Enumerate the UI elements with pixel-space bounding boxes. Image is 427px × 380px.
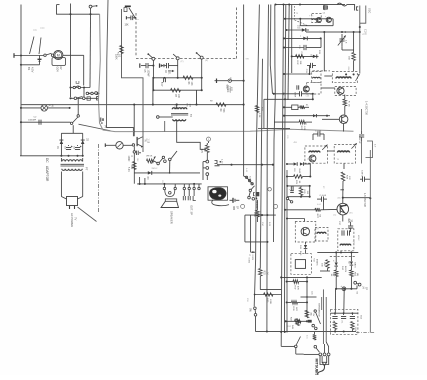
svg-text:1-15: 1-15: [147, 139, 149, 144]
antenna lead: [323, 32, 325, 71]
earphone: [209, 188, 226, 200]
marker: [207, 137, 211, 141]
wire: [122, 9, 144, 152]
svg-text:VR 5K: VR 5K: [146, 156, 153, 158]
node: [133, 104, 135, 106]
svg-text:GERMANIUM: GERMANIUM: [318, 303, 321, 317]
arrow: [351, 143, 356, 148]
transformer T2 secondary: [173, 119, 186, 121]
wire: [324, 75, 332, 77]
wire: [306, 277, 308, 316]
dashed box: [312, 14, 322, 23]
wire: [208, 141, 210, 143]
connector (B): [100, 118, 102, 122]
svg-text:EP: EP: [365, 287, 367, 291]
wire: [176, 105, 178, 110]
wire: [232, 80, 244, 82]
capacitor: [127, 17, 130, 19]
node: [284, 98, 286, 100]
node: [20, 64, 22, 66]
dark box: [256, 192, 259, 196]
mic connector: [228, 79, 231, 82]
switch S4 contacts: [74, 97, 77, 100]
svg-text:M: M: [57, 54, 60, 58]
jack bracket: [97, 97, 99, 100]
wire: [287, 163, 294, 165]
svg-text:(C): (C): [333, 215, 336, 217]
svg-text:150K: 150K: [115, 54, 118, 60]
wire: [203, 167, 206, 169]
dark component: [308, 320, 312, 323]
wire: [361, 109, 363, 131]
wire: [287, 196, 309, 198]
wire: [171, 151, 177, 159]
dashed box C52: [330, 309, 358, 334]
wire T6 feed: [287, 218, 305, 220]
resistor R10: [133, 162, 137, 170]
wire: [89, 14, 92, 87]
wire: [274, 93, 299, 95]
svg-text:C23: C23: [306, 96, 309, 98]
capacitor C52: [350, 316, 355, 318]
wire: [299, 19, 301, 26]
wire: [60, 158, 62, 162]
transistor TR4 (2SC730): [337, 203, 349, 215]
resistor R6: [183, 76, 193, 80]
wire: [133, 105, 135, 137]
node: [139, 183, 141, 185]
wire: [259, 276, 261, 290]
svg-text:1K: 1K: [265, 272, 267, 275]
speaker voice coil: [163, 187, 165, 189]
wire: [70, 4, 72, 98]
wire: [53, 54, 55, 56]
wire: [152, 60, 154, 90]
dashed box: [312, 71, 321, 82]
node: [285, 29, 287, 31]
wire: [14, 55, 44, 57]
small box: [87, 97, 90, 100]
svg-text:SW: SW: [246, 59, 249, 61]
dashed box T7: [315, 228, 328, 242]
svg-text:1-4 2SC730: 1-4 2SC730: [365, 101, 369, 115]
resistor R30: [326, 260, 330, 269]
svg-text:C2-3: C2-3: [249, 176, 251, 182]
node: [152, 77, 154, 79]
wire: [244, 215, 246, 242]
earphone cord: [212, 200, 229, 206]
head symbol: [159, 63, 161, 67]
vert: [359, 6, 361, 74]
resistor R28: [341, 172, 345, 181]
wire: [295, 348, 297, 354]
contact pair: [248, 196, 251, 199]
contact: [164, 160, 167, 163]
wire: [77, 99, 79, 115]
bus wire: [274, 5, 276, 243]
diode D2: [81, 140, 85, 144]
wire: [287, 281, 293, 283]
wire: [142, 151, 144, 153]
svg-text:OFF: OFF: [40, 27, 45, 30]
wire: [153, 77, 201, 79]
wire: [217, 164, 273, 166]
svg-text:15K: 15K: [299, 61, 301, 65]
ext sp jack: [183, 187, 185, 189]
wire: [286, 322, 288, 333]
node: [335, 288, 337, 290]
capacitor C38: [362, 177, 364, 182]
wire: [281, 345, 294, 347]
wire: [285, 18, 333, 20]
node: [230, 164, 232, 166]
node: [286, 281, 288, 283]
resistor R42: [305, 310, 309, 318]
wire: [327, 268, 329, 271]
dashed box T3: [335, 86, 356, 95]
wire: [309, 163, 311, 176]
capacitor C4: [75, 147, 80, 149]
wire: [334, 330, 336, 332]
pilot lamp PL: [41, 105, 47, 111]
wire: [21, 64, 40, 66]
corner wire: [264, 99, 290, 128]
switch SW1-3: [200, 56, 203, 59]
diode D3: [148, 171, 152, 175]
wire: [334, 289, 336, 313]
wire: [256, 200, 258, 210]
capacitor in T8: [341, 230, 343, 235]
resistor R53: [333, 322, 337, 330]
svg-text:(B): (B): [356, 273, 358, 276]
resistor R31: [340, 189, 344, 191]
phone plug: [320, 356, 329, 365]
wire: [202, 162, 204, 180]
bus wire: [270, 5, 272, 94]
wire: [61, 132, 82, 134]
svg-text:R?: R?: [322, 186, 324, 188]
node: [89, 13, 91, 15]
jack bracket: [215, 161, 218, 164]
wire: [353, 32, 355, 53]
resistor R32: [296, 55, 305, 59]
diode D6: [303, 36, 307, 40]
wire: [71, 87, 91, 89]
wire: [287, 29, 310, 31]
diode D8: [313, 54, 317, 58]
node: [283, 46, 285, 48]
AC plug: [67, 197, 78, 206]
antenna tap hatch: [323, 5, 325, 10]
vert: [360, 6, 366, 24]
wire: [245, 241, 268, 243]
wire: [342, 215, 344, 222]
cord: [325, 297, 327, 342]
capacitor C33: [310, 63, 312, 68]
node: [342, 197, 344, 199]
capacitor C7: [163, 77, 165, 82]
remote jack row: [86, 92, 88, 94]
dashed box T5: [334, 145, 355, 164]
transistor TR7: [337, 87, 344, 94]
wire: [133, 146, 135, 151]
wire: [342, 181, 344, 198]
switch S5 lever: [73, 117, 78, 123]
bus wire: [260, 59, 262, 269]
switch S9: [254, 307, 257, 310]
bus wire: [281, 5, 283, 347]
capacitor C6: [166, 63, 168, 68]
svg-text:R12: R12: [203, 148, 205, 153]
wire: [356, 286, 358, 289]
terminal: [125, 16, 127, 19]
wire: [317, 251, 358, 253]
wire: [57, 5, 100, 15]
node: [284, 209, 286, 211]
switch: [249, 189, 251, 191]
resistor R41: [295, 320, 302, 324]
svg-text:TR: TR: [144, 139, 146, 142]
wire: [83, 88, 85, 99]
switch S7: [286, 197, 288, 199]
terminal: [216, 79, 218, 84]
svg-text:x: x: [138, 19, 139, 21]
svg-text:0.005: 0.005: [248, 258, 250, 264]
bracket: [366, 141, 373, 158]
wire: [320, 38, 322, 47]
diode D11: [304, 245, 308, 249]
arrow: [168, 70, 172, 72]
node: [266, 241, 268, 243]
svg-text:C 2-5: C 2-5: [363, 29, 365, 35]
wire: [344, 95, 346, 100]
dashed box T4: [305, 146, 328, 163]
resistor R27: [315, 208, 321, 212]
coil T8: [340, 244, 351, 245]
resistor R23: [343, 99, 347, 106]
capacitor C22: [299, 91, 301, 96]
wire: [133, 153, 135, 184]
svg-text:455KC: 455KC: [357, 235, 359, 241]
svg-text:C38 5P: C38 5P: [361, 170, 363, 178]
svg-text:ADAPTOR: ADAPTOR: [45, 166, 49, 182]
wire: [284, 47, 304, 49]
bus wire: [243, 5, 245, 177]
wire: [123, 144, 132, 146]
long wire: [21, 104, 244, 106]
resistor R7: [171, 88, 181, 92]
wire: [244, 175, 245, 178]
svg-text:IN60S: IN60S: [344, 266, 346, 273]
switch S6: [157, 162, 160, 165]
svg-text:602: 602: [229, 77, 231, 80]
wire: [335, 252, 337, 262]
svg-text:x: x: [300, 36, 301, 38]
node: [291, 55, 293, 57]
wire: [152, 77, 154, 79]
bus wire: [254, 5, 259, 307]
wire: [335, 267, 337, 270]
contact: [319, 353, 322, 356]
wire: [72, 125, 74, 133]
svg-text:AC POWER: AC POWER: [70, 213, 74, 227]
wire: [20, 155, 83, 157]
transistor TR2 (2SC730): [339, 115, 348, 124]
motor governor box: [52, 58, 66, 66]
wire: [139, 177, 141, 184]
wire: [285, 320, 307, 322]
contact: [77, 115, 79, 117]
resistor R39: [292, 301, 298, 305]
coil T4: [309, 151, 320, 152]
wire: [57, 4, 60, 6]
resistor R21: [255, 106, 259, 113]
diode D10: [300, 162, 304, 166]
wire: [309, 66, 311, 75]
dashed box T10: [291, 254, 312, 275]
coil: [313, 19, 321, 20]
wire: [321, 87, 335, 89]
dashed diagonal: [294, 6, 296, 20]
bus wire: [291, 5, 293, 74]
capacitor C36: [348, 225, 353, 227]
resistor R22: [299, 120, 305, 124]
wire: [286, 196, 288, 199]
dash-dot top: [313, 70, 331, 72]
svg-text:MIN: MIN: [232, 206, 234, 211]
wire: [322, 289, 324, 344]
wire: [255, 294, 282, 296]
wire: [305, 242, 307, 245]
wire: [281, 276, 322, 278]
node: [261, 214, 263, 216]
wire: [274, 121, 299, 123]
marker: [268, 188, 271, 191]
wire: [284, 37, 321, 39]
switch lever: [296, 337, 300, 346]
svg-text:C51: C51: [341, 320, 343, 323]
svg-text:OSC: OSC: [347, 67, 349, 72]
svg-text:C31 5P: C31 5P: [358, 136, 360, 144]
wire: [13, 53, 15, 58]
diode D12: [334, 263, 338, 267]
svg-text:4.5V: 4.5V: [31, 67, 35, 73]
capacitor C51: [341, 316, 346, 318]
contact: [314, 345, 317, 348]
capacitor C34: [291, 185, 293, 188]
transistor TR6: [316, 17, 321, 22]
node: [286, 185, 288, 187]
wire: [350, 266, 352, 270]
svg-text:GOV: GOV: [56, 67, 59, 73]
switch lever: [129, 8, 135, 18]
svg-text:C26: C26: [286, 135, 288, 138]
wire: [71, 97, 100, 99]
capacitor C35: [321, 197, 323, 202]
wire: [298, 106, 300, 108]
wire: [323, 201, 325, 210]
node: [309, 196, 311, 198]
diode D1: [59, 140, 63, 144]
resistor R33: [259, 269, 263, 277]
wire: [196, 90, 198, 104]
wire diagonal: [78, 207, 97, 222]
node: [280, 276, 282, 278]
wire: [260, 289, 281, 291]
wire: [206, 153, 208, 161]
svg-text:(R): (R): [205, 60, 208, 62]
contact EP: [354, 281, 357, 284]
transformer T2 core: [171, 113, 188, 115]
wire: [324, 344, 326, 353]
node: [286, 301, 288, 303]
switch SW1-2: [176, 57, 179, 60]
wire row3: [306, 31, 360, 33]
svg-text:F T5: F T5: [309, 16, 314, 18]
switch S1 contacts: [44, 54, 46, 56]
capacitor: [296, 85, 298, 89]
svg-text:IN60: IN60: [298, 169, 300, 174]
svg-text:C 0.04: C 0.04: [320, 195, 327, 197]
wire: [169, 161, 171, 173]
transformer PT secondary: [62, 169, 82, 171]
transistor TR9: [303, 86, 309, 92]
switch SW1-1: [152, 57, 155, 60]
resistor R40: [352, 53, 356, 61]
meter M: [116, 142, 123, 149]
node: [273, 93, 275, 95]
wire: [20, 107, 41, 109]
svg-text:R29: R29: [347, 219, 349, 224]
small circle: [95, 92, 98, 95]
node: [20, 107, 22, 109]
wire: [250, 215, 252, 252]
svg-text:15K: 15K: [125, 25, 130, 27]
node: [284, 18, 286, 20]
resistor R1: [120, 46, 124, 54]
svg-text:1-12: 1-12: [221, 159, 223, 164]
mech link dashed: [236, 6, 238, 59]
node: [243, 80, 245, 82]
volume VR: [147, 159, 154, 163]
node: [152, 89, 154, 91]
node: [152, 65, 154, 67]
wire: [322, 118, 339, 120]
capacitor C5: [141, 65, 146, 67]
svg-text:10MF: 10MF: [127, 156, 129, 162]
chassis dash-dot: [98, 144, 100, 213]
wire: [107, 0, 134, 136]
svg-text:(P): (P): [181, 61, 184, 63]
svg-text:10K: 10K: [190, 82, 192, 87]
wire: [320, 208, 336, 210]
resistor R9: [216, 103, 226, 107]
node: [20, 121, 22, 123]
wire: [137, 183, 202, 185]
wire: [287, 185, 309, 187]
arrow: [322, 145, 327, 150]
wire: [361, 141, 363, 164]
long wire: [255, 331, 356, 333]
node: [283, 37, 285, 39]
wire: [264, 98, 313, 100]
svg-text:R34: R34: [246, 298, 248, 301]
svg-text:R10: R10: [130, 165, 132, 170]
svg-text:C 0.01: C 0.01: [315, 131, 322, 133]
bus wire: [267, 5, 269, 332]
capacitor C8: [135, 151, 137, 155]
svg-text:5.6K: 5.6K: [127, 167, 129, 172]
